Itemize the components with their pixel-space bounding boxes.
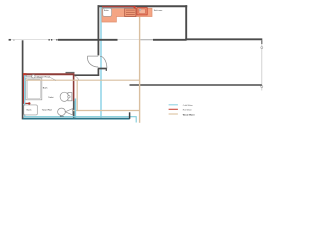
main wall window line bbox=[11, 39, 58, 41]
wall left vertical bbox=[22, 40, 24, 119]
cold water riser bbox=[100, 8, 102, 118]
hot water end blob bbox=[133, 6, 135, 8]
basin cabinet bbox=[24, 105, 38, 115]
hot water kitchen top run bbox=[102, 6, 134, 8]
svg-text:Towel Rail: Towel Rail bbox=[42, 110, 52, 112]
door leaf end tick bbox=[87, 56, 89, 59]
red wall bathroom right bbox=[73, 73, 75, 101]
sink fixture bbox=[58, 108, 66, 115]
red wall bright left end bbox=[23, 73, 27, 75]
door arc left bbox=[88, 59, 99, 67]
toilet valve bbox=[68, 96, 70, 98]
svg-text:Sink area: Sink area bbox=[154, 10, 163, 12]
svg-text:Boiler: Boiler bbox=[104, 9, 109, 12]
wall light right vertical bbox=[261, 40, 263, 90]
main wall medium segment bbox=[141, 39, 154, 41]
waste toilet vertical bbox=[76, 80, 78, 110]
door leaf upper bbox=[87, 55, 98, 57]
hob unit bbox=[125, 8, 136, 16]
door stub wall bbox=[98, 68, 107, 70]
svg-text:Basin: Basin bbox=[27, 109, 32, 111]
kitchen counter bbox=[102, 8, 152, 22]
svg-text:Waste Water: Waste Water bbox=[183, 113, 195, 116]
hot water bathroom drop bbox=[23, 75, 25, 103]
svg-text:Hot Water: Hot Water bbox=[183, 109, 192, 112]
main wall solid right bbox=[153, 39, 187, 41]
legend hot water bbox=[169, 108, 178, 110]
cold pipe along bottom bbox=[24, 117, 136, 123]
wall kitchen vertical bbox=[97, 5, 99, 55]
main wall dash3 bbox=[51, 39, 52, 41]
toilet bowl bbox=[60, 92, 68, 101]
wall jog horizontal bbox=[74, 74, 99, 76]
legend waste water bbox=[169, 113, 178, 115]
wall tick top right corner bbox=[261, 40, 263, 44]
boiler box bbox=[103, 8, 112, 16]
main wall opening light line bbox=[118, 39, 141, 41]
cold water toilet drop bbox=[74, 99, 76, 118]
waste toilet run bbox=[72, 110, 140, 112]
main wall left dash bbox=[9, 39, 11, 41]
door stub tick bbox=[105, 69, 107, 71]
cold water bathroom drop bbox=[24, 75, 26, 116]
sink unit bbox=[137, 8, 147, 15]
toilet cistern bbox=[68, 93, 72, 101]
svg-text:Bath: Bath bbox=[43, 87, 48, 90]
main wall small dot bbox=[13, 39, 15, 41]
wall top kitchen bbox=[98, 5, 188, 7]
wall top right bbox=[185, 38, 262, 40]
node circle top bbox=[261, 47, 263, 49]
waste stack vertical bbox=[139, 15, 141, 123]
door arc right bbox=[100, 56, 107, 68]
gray wall bathroom right lower bbox=[73, 101, 75, 119]
wall right vertical upper bbox=[185, 5, 187, 40]
pipe elbow curve at wall corner bbox=[74, 76, 78, 80]
gray wall stub above red wall bbox=[66, 72, 75, 74]
main wall solid left bbox=[58, 39, 118, 41]
svg-text:Shower Head: Shower Head bbox=[37, 76, 51, 79]
shower head line bbox=[26, 75, 32, 77]
cold water kitchen top run bbox=[101, 7, 134, 9]
cold stub under top wall bbox=[24, 75, 27, 77]
waste stub up bbox=[129, 112, 131, 119]
hot water basin elbow bbox=[24, 102, 29, 104]
shower head bbox=[32, 75, 35, 78]
main wall dash2 bbox=[49, 39, 50, 41]
wall jog vertical bbox=[97, 69, 99, 76]
bath bbox=[26, 78, 42, 100]
waste main bottom band bbox=[23, 118, 130, 120]
svg-text:Toilet: Toilet bbox=[48, 96, 53, 99]
leader line bbox=[50, 77, 57, 81]
node circle bottom bbox=[261, 86, 263, 88]
red wall bathroom top bbox=[23, 73, 74, 75]
svg-text:Sink: Sink bbox=[60, 116, 64, 118]
legend cold water bbox=[169, 104, 178, 106]
wall bottom right room bbox=[130, 84, 262, 86]
main wall dash4 bbox=[56, 39, 57, 41]
svg-text:Cold Water: Cold Water bbox=[183, 104, 193, 107]
waste shower run bbox=[25, 79, 139, 81]
